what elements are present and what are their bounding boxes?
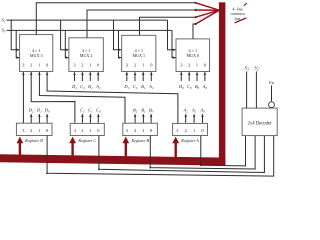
svg-text:B2: B2 (88, 84, 93, 90)
svg-text:MUX 2: MUX 2 (80, 53, 93, 58)
svg-text:B0: B0 (195, 84, 200, 90)
svg-text:2: 2 (188, 63, 190, 68)
svg-text:A0: A0 (202, 84, 208, 90)
svg-text:S0: S0 (2, 28, 6, 34)
svg-text:2: 2 (81, 63, 83, 68)
svg-text:C1: C1 (88, 108, 93, 114)
svg-text:Register C: Register C (77, 138, 96, 143)
svg-text:Register B: Register B (130, 138, 149, 143)
svg-text:MUX 3: MUX 3 (30, 53, 43, 58)
svg-text:C0: C0 (187, 84, 192, 90)
svg-text:S2: S2 (254, 66, 259, 72)
svg-text:Register A: Register A (180, 138, 199, 143)
svg-text:C2: C2 (80, 108, 85, 114)
svg-text:2: 2 (81, 128, 83, 133)
svg-text:1: 1 (38, 63, 40, 68)
svg-text:C1: C1 (133, 84, 138, 90)
svg-text:B1: B1 (141, 108, 146, 114)
svg-text:C0: C0 (96, 108, 101, 114)
svg-text:2: 2 (30, 128, 32, 133)
svg-text:D1: D1 (123, 84, 129, 90)
svg-text:1: 1 (142, 128, 144, 133)
svg-text:1: 1 (196, 63, 198, 68)
svg-text:A0: A0 (199, 108, 205, 114)
svg-text:1: 1 (89, 128, 91, 133)
svg-text:1: 1 (89, 63, 91, 68)
svg-text:D0: D0 (178, 84, 184, 90)
svg-text:D2: D2 (71, 84, 77, 90)
svg-text:2: 2 (134, 63, 136, 68)
svg-text:MUX 0: MUX 0 (186, 53, 199, 58)
svg-text:2: 2 (185, 128, 187, 133)
svg-text:A2: A2 (183, 108, 189, 114)
svg-text:2: 2 (30, 63, 32, 68)
svg-text:2: 2 (134, 128, 136, 133)
svg-text:1: 1 (38, 128, 40, 133)
svg-text:A1: A1 (148, 84, 154, 90)
svg-text:B0: B0 (149, 108, 154, 114)
svg-text:B1: B1 (141, 84, 146, 90)
svg-text:D1: D1 (36, 108, 42, 114)
svg-text:S1: S1 (2, 17, 6, 23)
svg-text:B2: B2 (133, 108, 138, 114)
svg-text:S3: S3 (244, 66, 249, 72)
svg-text:A1: A1 (191, 108, 197, 114)
svg-text:2x4 Decoder: 2x4 Decoder (248, 121, 273, 126)
svg-text:C2: C2 (80, 84, 85, 90)
svg-text:En: En (269, 80, 275, 85)
svg-text:MUX 1: MUX 1 (132, 53, 145, 58)
svg-text:1: 1 (193, 128, 195, 133)
svg-text:D2: D2 (28, 108, 34, 114)
svg-text:D0: D0 (44, 108, 50, 114)
svg-text:1: 1 (142, 63, 144, 68)
svg-text:Register D: Register D (24, 138, 43, 143)
svg-text:A2: A2 (95, 84, 101, 90)
